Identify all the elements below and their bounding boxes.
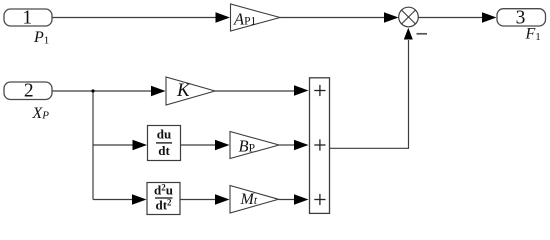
svg-text:dt: dt [158,143,170,158]
svg-text:du: du [157,127,171,142]
svg-text:3: 3 [516,7,526,28]
svg-text:2: 2 [24,80,34,101]
svg-text:1: 1 [22,8,32,29]
svg-text:K: K [176,80,191,101]
